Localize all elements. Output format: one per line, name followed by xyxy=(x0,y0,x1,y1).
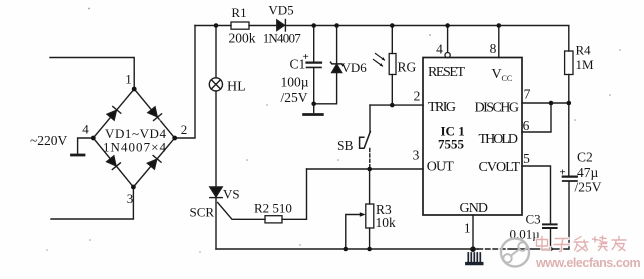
svg-text:10k: 10k xyxy=(376,215,397,230)
junction R4/C2/pin7 xyxy=(567,101,572,106)
junction C3/bottom rail xyxy=(548,247,553,252)
svg-text:7: 7 xyxy=(524,87,531,102)
svg-text:4: 4 xyxy=(436,42,443,57)
svg-text:V: V xyxy=(492,67,502,82)
wire bridge edge 3-2 xyxy=(133,138,174,187)
resistor R4 xyxy=(565,51,573,75)
thyristor VS xyxy=(210,187,222,197)
capacitor C1 xyxy=(313,26,315,63)
svg-text:3: 3 xyxy=(413,148,420,163)
wire bottom rail xyxy=(216,248,478,250)
svg-text:+: + xyxy=(560,167,566,179)
junction wiper/bottom rail xyxy=(344,247,349,252)
svg-text:R4: R4 xyxy=(576,43,592,58)
ground (IC GND, hatched) xyxy=(468,253,480,262)
diode VD1 (bridge top-left) xyxy=(107,106,121,120)
node junction dots xyxy=(91,23,571,252)
svg-text:RESET: RESET xyxy=(428,65,465,80)
RG light arrows xyxy=(374,54,385,67)
resistor R2 xyxy=(265,216,282,223)
svg-text:SCR: SCR xyxy=(190,205,215,220)
diode VD4 (bridge bottom-right) xyxy=(147,155,161,169)
svg-text:47µ: 47µ xyxy=(577,165,599,180)
svg-text:1: 1 xyxy=(464,221,471,236)
watermark chinese characters (drawn strokes) xyxy=(537,236,627,252)
lamp HL xyxy=(215,26,217,78)
wire DISCHG (pin 7) xyxy=(522,102,569,104)
op-amp/timer IC1 7555 box xyxy=(423,58,522,216)
svg-text:1N4007: 1N4007 xyxy=(263,31,302,46)
svg-text:HL: HL xyxy=(227,80,246,95)
ground (C1 bar) xyxy=(304,113,323,116)
svg-text:8: 8 xyxy=(490,41,497,56)
pin 1 GND stub xyxy=(472,215,474,249)
svg-text:VD5: VD5 xyxy=(268,3,293,18)
ground (AC neutral, bar) xyxy=(72,154,85,157)
wire bridge edge 1-2 xyxy=(134,89,175,138)
wire bridge edge 4-1 xyxy=(93,89,134,138)
svg-text:VD6: VD6 xyxy=(342,60,368,75)
pin 4 RESET stub xyxy=(447,26,449,53)
node 4 xyxy=(91,136,96,141)
junction SB/OUT/R3 xyxy=(367,167,372,172)
wire AC input top (to bridge node 1) xyxy=(50,58,134,90)
wire bridge edge 4-3 xyxy=(93,138,133,187)
svg-text:/25V: /25V xyxy=(281,90,308,105)
wire TRIG (pin 2) xyxy=(370,104,423,106)
junction pin8/top rail xyxy=(497,23,502,28)
wire OUT (pin 3) xyxy=(307,168,424,170)
node 3 xyxy=(131,185,136,190)
junction pin6 riser/pin7 xyxy=(549,101,554,106)
svg-text:CVOLT: CVOLT xyxy=(479,160,521,175)
IC internal labels xyxy=(427,65,521,216)
resistor R1 xyxy=(231,22,249,29)
capacitor C2 xyxy=(568,103,570,176)
capacitor C3 xyxy=(543,223,557,225)
svg-text:GND: GND xyxy=(460,201,489,216)
svg-text:C3: C3 xyxy=(526,212,541,227)
svg-text:1: 1 xyxy=(125,72,132,87)
svg-text:100µ: 100µ xyxy=(281,75,309,90)
junction HL/top rail xyxy=(214,23,219,28)
svg-text:2: 2 xyxy=(181,122,188,137)
junction GND/bottom rail xyxy=(470,246,476,252)
potentiometer R3 xyxy=(369,169,371,204)
wire THOLD (pin 6) xyxy=(522,103,551,132)
watermark url text xyxy=(536,256,640,270)
svg-text:200k: 200k xyxy=(229,31,256,46)
wire CVOLT (pin 5) to C3 xyxy=(522,166,551,223)
svg-text:~220V: ~220V xyxy=(30,133,68,148)
svg-text:5: 5 xyxy=(523,151,530,166)
junction VD6/top rail xyxy=(334,23,339,28)
svg-text:7555: 7555 xyxy=(438,137,465,152)
svg-text:/25V: /25V xyxy=(575,180,602,195)
pin 8 Vcc stub xyxy=(498,26,500,58)
svg-text:TRIG: TRIG xyxy=(428,100,456,115)
svg-text:2: 2 xyxy=(414,89,421,104)
diode VD2 (bridge top-right) xyxy=(147,106,161,120)
junction C1/VD6 bottom xyxy=(311,102,316,107)
svg-text:THOLD: THOLD xyxy=(479,132,519,147)
R3 wiper wire xyxy=(346,215,363,250)
wire VS gate to R2 xyxy=(218,203,265,220)
svg-text:CC: CC xyxy=(502,74,513,83)
svg-text:6: 6 xyxy=(523,118,530,133)
svg-text:1N4007×4: 1N4007×4 xyxy=(103,140,167,155)
scan specks (decorative) xyxy=(46,8,621,253)
svg-text:SB: SB xyxy=(337,138,354,153)
svg-text:VS: VS xyxy=(223,187,240,202)
node 1 xyxy=(132,87,137,92)
svg-text:+: + xyxy=(303,51,309,63)
svg-text:4: 4 xyxy=(82,122,89,137)
wire R2 to OUT node xyxy=(282,169,307,219)
junction pin4/top rail xyxy=(445,23,450,28)
node 2 xyxy=(172,136,177,141)
wire top rail xyxy=(195,26,569,52)
svg-text:DISCHG: DISCHG xyxy=(475,101,520,116)
svg-text:1M: 1M xyxy=(576,57,595,72)
photoresistor RG xyxy=(391,26,393,54)
wire node 4 to ground xyxy=(78,138,94,154)
svg-text:R1: R1 xyxy=(231,5,246,20)
svg-text:OUT: OUT xyxy=(427,160,454,175)
junction C1/top rail xyxy=(311,23,316,28)
wire AC input bottom (to bridge node 3) xyxy=(51,187,133,219)
junction RG/top rail xyxy=(390,23,395,28)
switch SB xyxy=(364,131,370,147)
wire node 2 to top rail xyxy=(175,26,195,139)
svg-text:C2: C2 xyxy=(577,150,593,165)
svg-text:R2 510: R2 510 xyxy=(254,201,292,216)
watermark logo (grey circle) xyxy=(501,239,529,267)
junction R3/bottom rail xyxy=(367,247,372,252)
zener diode VD6 xyxy=(336,26,338,64)
diode VD3 (bridge bottom-left) xyxy=(106,155,120,169)
svg-text:RG: RG xyxy=(398,60,417,75)
svg-text:3: 3 xyxy=(127,191,134,206)
diode VD5 xyxy=(277,20,285,30)
junction RG/TRIG xyxy=(390,103,395,108)
